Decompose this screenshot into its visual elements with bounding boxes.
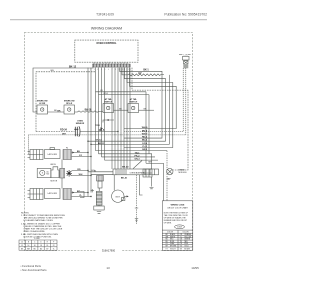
svg-text:VIOLET: VIOLET	[170, 248, 176, 250]
svg-text:GY: GY	[79, 155, 83, 157]
svg-text:16: 16	[34, 245, 36, 247]
svg-text:WHITE: WHITE	[170, 236, 175, 238]
wire connector link vertical	[61, 160, 63, 189]
svg-text:WH-9: WH-9	[142, 127, 148, 129]
svg-text:RD-6: RD-6	[142, 137, 148, 139]
svg-text:MODULE: MODULE	[179, 172, 188, 174]
svg-text:F-DBD: F-DBD	[34, 238, 40, 240]
wire latch1 out	[72, 152, 89, 154]
svg-text:SENSOR: SENSOR	[76, 123, 85, 125]
svg-text:20: 20	[46, 245, 48, 247]
svg-text:SILVER: SILVER	[184, 248, 190, 250]
wire bracket stub	[80, 192, 84, 198]
svg-text:• Non-Functional Parts: • Non-Functional Parts	[21, 268, 48, 272]
wire fan R2 igniter cable coil	[122, 68, 164, 76]
motor B2 door latch motor	[37, 168, 51, 177]
svg-text:BK-12: BK-12	[69, 65, 77, 68]
wire fan R4	[124, 68, 173, 148]
wire dashed drop right of motor	[136, 175, 138, 224]
svg-text:YL: YL	[180, 236, 182, 238]
svg-text:TOD: TOD	[95, 125, 100, 127]
wire diagonal pointer	[133, 161, 142, 169]
svg-text:18: 18	[40, 245, 42, 247]
notes block	[21, 212, 65, 238]
wire stack h9 loop	[99, 153, 153, 155]
svg-text:OR-5: OR-5	[99, 130, 105, 132]
svg-text:B: B	[28, 242, 29, 244]
wire bus x88	[87, 68, 89, 197]
svg-text:MOT: MOT	[116, 196, 121, 198]
wire W1 left	[33, 68, 94, 112]
svg-text:24V: 24V	[167, 178, 171, 181]
svg-text:WIRING DIAGRAM: WIRING DIAGRAM	[91, 27, 122, 31]
svg-text:BK-41: BK-41	[121, 177, 128, 180]
wire S1-S2	[48, 111, 65, 113]
wire bus into burner	[88, 172, 113, 175]
connector CH1 hatch	[63, 150, 72, 160]
switch S1 spark switch	[37, 105, 48, 114]
svg-text:WH: WH	[50, 70, 54, 72]
svg-text:RF-LR: RF-LR	[66, 103, 73, 105]
switch DS2 cam profile	[51, 167, 59, 178]
wire mid bundle verticals	[96, 68, 131, 169]
header rule	[10, 19, 207, 21]
svg-text:WH: WH	[79, 174, 83, 176]
wire latch2 out	[72, 170, 88, 172]
wire latch feed 2	[91, 143, 169, 145]
svg-text:LATCH: LATCH	[50, 163, 56, 166]
svg-text:MOTOR: MOTOR	[50, 181, 57, 183]
svg-text:BK-8: BK-8	[142, 130, 148, 132]
svg-text:BR: BR	[77, 191, 81, 193]
switch DS3 box	[45, 189, 61, 199]
wire stub top	[103, 120, 114, 123]
svg-text:BK-1: BK-1	[143, 70, 149, 72]
svg-text:GY-4: GY-4	[142, 142, 148, 145]
svg-text:RD: RD	[77, 169, 81, 171]
heater E1 oven burner box	[113, 169, 159, 175]
svg-text:OF WIRE.: OF WIRE.	[164, 223, 172, 225]
svg-text:YELLOW: YELLOW	[184, 236, 191, 238]
svg-text:F: F	[53, 242, 54, 244]
svg-text:CIRCUIT COLOR CHART: CIRCUIT COLOR CHART	[167, 206, 189, 209]
svg-text:BLUE: BLUE	[170, 241, 174, 243]
connector P1 strip under control	[92, 64, 130, 67]
controller U1 electronic oven control box	[75, 40, 138, 62]
ground marks igniter	[97, 212, 101, 214]
connector CG3 grid latch3	[30, 189, 43, 200]
svg-text:BK: BK	[57, 110, 61, 112]
wire bus x91	[90, 68, 92, 193]
svg-text:USED ON EACH WIRE.: USED ON EACH WIRE.	[24, 230, 46, 233]
connector CH3 hatch	[63, 189, 72, 200]
svg-text:LF-RR: LF-RR	[39, 103, 46, 105]
svg-text:BU: BU	[77, 151, 81, 153]
wire S3-S4	[114, 109, 129, 111]
wire stack h11 loop	[105, 159, 159, 161]
svg-text:12: 12	[21, 245, 23, 247]
connector CH2 hatch	[60, 168, 65, 178]
svg-text:1 2 3 4 5 6 7 8 9 10 11: 1 2 3 4 5 6 7 8 9 10 11	[90, 69, 131, 71]
switch S2 spark switch	[64, 105, 75, 114]
svg-text:P4: P4	[66, 148, 68, 150]
svg-text:LOCAL AND NATIONAL CODES.: LOCAL AND NATIONAL CODES.	[24, 219, 54, 222]
wire S4 out	[139, 109, 155, 111]
wire fan R5	[124, 68, 176, 129]
svg-text:OVEN CONTROL: OVEN CONTROL	[96, 42, 117, 45]
wire burner to motor	[113, 175, 115, 191]
switch S4 spark switch	[128, 104, 139, 113]
svg-text:HV: HV	[138, 73, 142, 75]
svg-text:BK-18: BK-18	[85, 110, 92, 112]
wire fan R3	[125, 68, 166, 142]
connector box under igniter	[94, 206, 104, 210]
svg-text:OR-2: OR-2	[142, 149, 148, 151]
svg-text:13: 13	[106, 266, 110, 270]
splice SP1 star	[66, 170, 72, 177]
resistor igniter body	[98, 181, 102, 188]
svg-text:COLOR: COLOR	[182, 231, 189, 233]
svg-text:• Functional Parts: • Functional Parts	[21, 264, 42, 268]
connector CG1 grid latch1	[30, 150, 43, 160]
junction dots	[87, 131, 118, 197]
connector J2 grid	[143, 169, 152, 177]
svg-text:GN-3: GN-3	[134, 159, 140, 161]
svg-text:SWITCH: SWITCH	[104, 102, 112, 104]
svg-text:LATCH SW: LATCH SW	[48, 153, 57, 156]
svg-text:WIRING CODE: WIRING CODE	[171, 205, 185, 207]
wire motor arrow	[124, 195, 128, 197]
wire L1 drop	[124, 68, 183, 132]
wire sensor to bundle	[80, 131, 118, 133]
svg-text:14: 14	[28, 245, 30, 247]
svg-text:TN-1: TN-1	[135, 152, 141, 154]
svg-text:WH: WH	[62, 133, 66, 135]
wire latch3 out	[72, 192, 89, 194]
arrow marker mid	[101, 127, 104, 129]
svg-text:WH-7: WH-7	[142, 133, 148, 135]
resistor HTR igniter tall hatched	[96, 191, 102, 205]
legend box	[162, 201, 193, 251]
wire module drop	[150, 154, 154, 189]
svg-text:GY: GY	[148, 162, 152, 164]
svg-text:COLOR: COLOR	[167, 231, 174, 233]
svg-text:PK-2: PK-2	[135, 155, 141, 157]
svg-text:CODE: CODE	[177, 227, 183, 229]
wire fan R6 long	[132, 68, 188, 170]
wire W2 left dashed	[36, 72, 95, 132]
wire latch feed 1	[88, 140, 166, 142]
wire cluster right v2 dashed	[166, 151, 168, 201]
svg-text:316A17900: 316A17900	[102, 248, 116, 252]
svg-text:BROWN: BROWN	[170, 246, 177, 248]
svg-text:22: 22	[53, 245, 55, 247]
wire stack h12 stub	[146, 162, 164, 164]
wire stack h10 loop	[102, 156, 156, 158]
switch S3 spark switch	[103, 104, 114, 113]
wire N drop	[28, 68, 186, 155]
svg-text:Publication No: 5995419702: Publication No: 5995419702	[164, 12, 207, 16]
svg-text:VT-12: VT-12	[96, 140, 103, 142]
table bottom left	[19, 240, 57, 250]
resistor RT1 oven sensor probe	[74, 126, 80, 136]
connector hatch igniter top	[97, 176, 104, 182]
plug P2 power cord	[179, 54, 191, 56]
wire run A drop	[145, 92, 147, 163]
svg-text:VT: VT	[166, 248, 168, 250]
wire pins strip to box	[94, 62, 127, 64]
wire stack h8 loop	[96, 150, 168, 152]
wire run B drop	[148, 95, 150, 154]
switch DS1 latch switch box	[45, 150, 61, 159]
svg-text:GREEN: GREEN	[184, 239, 191, 241]
svg-text:T3F341-E09: T3F341-E09	[96, 12, 114, 16]
motor B1 circle	[112, 190, 124, 202]
spark module SM1	[167, 168, 173, 174]
svg-text:BR-11: BR-11	[98, 143, 105, 145]
svg-text:RD-34: RD-34	[60, 129, 67, 132]
part number on frame	[96, 248, 121, 253]
diagram border frame	[24, 33, 192, 251]
wire upper run A	[96, 91, 147, 93]
svg-text:OVEN BURNER: OVEN BURNER	[130, 172, 145, 174]
svg-text:YL: YL	[53, 248, 55, 250]
wire fan R1	[120, 68, 163, 138]
svg-text:BU-5: BU-5	[142, 140, 148, 142]
wire sensor line dashed	[36, 131, 75, 133]
svg-text:10/95: 10/95	[191, 266, 199, 270]
wire S2-S3 twisted	[75, 111, 104, 113]
wire cluster right v1	[163, 163, 165, 201]
svg-text:E: E	[47, 242, 48, 244]
wire box drop 2	[140, 175, 143, 195]
svg-text:YL-3: YL-3	[142, 146, 148, 148]
wire upper run B	[99, 94, 150, 96]
connector marks left	[91, 189, 95, 192]
svg-text:BK-40: BK-40	[122, 165, 129, 168]
svg-text:LATCH SW: LATCH SW	[48, 192, 57, 195]
svg-text:SWITCH: SWITCH	[129, 102, 137, 104]
